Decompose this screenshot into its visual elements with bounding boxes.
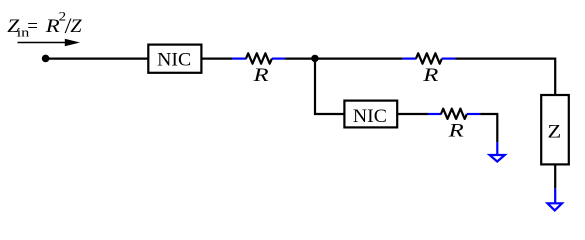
svg-text:=: = xyxy=(27,16,38,37)
svg-text:Z: Z xyxy=(70,17,82,37)
svg-text:R: R xyxy=(45,15,60,37)
svg-text:R: R xyxy=(422,64,439,86)
svg-text:Z: Z xyxy=(548,121,562,142)
svg-text:R: R xyxy=(447,119,464,141)
svg-text:NIC: NIC xyxy=(157,50,191,71)
svg-text:R: R xyxy=(252,64,269,86)
svg-text:NIC: NIC xyxy=(353,106,387,127)
